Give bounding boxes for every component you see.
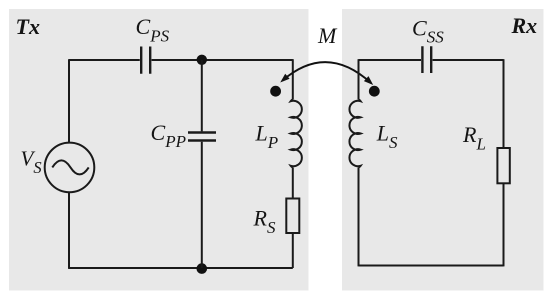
Tx panel background bbox=[9, 9, 309, 291]
wire Tx top-right segment bbox=[152, 59, 293, 61]
wire Rx left lower bbox=[358, 168, 360, 267]
wire Tx bottom bbox=[69, 267, 293, 269]
svg-text:M: M bbox=[317, 23, 338, 48]
wire Tx right middle bbox=[292, 168, 294, 199]
wire Rx right upper bbox=[503, 59, 505, 148]
node junction top bbox=[197, 55, 207, 65]
arrowhead left bbox=[280, 74, 289, 83]
wire Rx bottom bbox=[359, 265, 504, 267]
wire Tx middle lower bbox=[201, 142, 203, 268]
node junction bottom bbox=[197, 263, 208, 274]
wire Rx right lower bbox=[503, 183, 505, 266]
capacitor CPP bbox=[188, 133, 216, 141]
resistor RL bbox=[497, 148, 509, 183]
capacitor CSS bbox=[422, 46, 431, 73]
wire Tx right upper bbox=[292, 59, 294, 99]
source VS circle bbox=[45, 143, 95, 193]
coupling dot LP bbox=[270, 86, 281, 97]
wire Rx top-right segment bbox=[433, 59, 504, 61]
inductor LS bbox=[349, 100, 360, 168]
inductor LP bbox=[291, 100, 302, 168]
source VS sine wave bbox=[52, 160, 88, 174]
mutual coupling arrow M bbox=[283, 62, 372, 83]
arrowhead right bbox=[364, 76, 373, 85]
Rx panel background bbox=[342, 9, 544, 291]
svg-text:Rx: Rx bbox=[511, 13, 538, 38]
wire Tx top-left segment bbox=[69, 59, 140, 61]
resistor RS bbox=[286, 199, 299, 234]
svg-text:Tx: Tx bbox=[16, 14, 40, 39]
wire Tx right lower bbox=[292, 233, 294, 268]
wire Tx left lower bbox=[68, 192, 70, 269]
capacitor CPS bbox=[141, 47, 150, 74]
coupling dot LS bbox=[369, 86, 380, 97]
wire Tx middle upper bbox=[201, 60, 203, 131]
wire Rx left upper bbox=[358, 59, 360, 99]
wire Rx top-left segment bbox=[359, 59, 422, 61]
wire Tx left upper bbox=[68, 59, 70, 142]
